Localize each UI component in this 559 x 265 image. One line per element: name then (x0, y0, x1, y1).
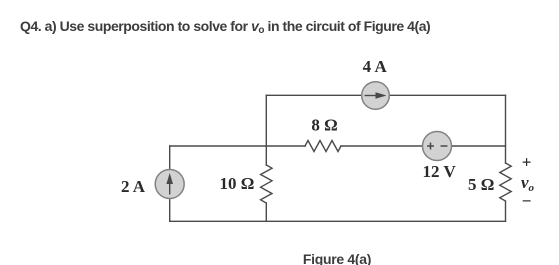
label 12 V (423, 162, 457, 181)
current source I2 2A arrow (166, 173, 173, 195)
svg-text:5 Ω: 5 Ω (468, 175, 494, 194)
voltage source V1 12V circle (423, 132, 452, 161)
current source I1 4A arrow (365, 92, 387, 99)
svg-text:8 Ω: 8 Ω (311, 116, 337, 135)
wire right rail lower (5 ohm to bottom corner) (505, 202, 507, 221)
label minus (vo polarity) (522, 192, 532, 211)
wire right rail upper (top corner to 5 ohm) (505, 95, 507, 163)
label 8 ohm (311, 116, 337, 135)
label 4 A (363, 57, 388, 76)
voltage source V1 minus sign (441, 145, 448, 147)
wire left rail upper (node to 2A source) (169, 146, 171, 170)
wire 10 ohm stub lower (265, 203, 267, 221)
resistor R 5 ohm (vertical) (500, 163, 511, 201)
wire middle-right (12V source to right rail) (452, 145, 506, 147)
svg-text:−: − (522, 192, 532, 211)
wire 10 ohm stub upper (265, 146, 267, 165)
voltage source V1 plus sign (427, 143, 434, 150)
svg-text:Q4. a) Use superposition to so: Q4. a) Use superposition to solve for vo… (20, 18, 430, 36)
svg-text:Figure 4(a): Figure 4(a) (303, 251, 371, 265)
svg-text:10 Ω: 10 Ω (220, 174, 255, 193)
wire middle-center (8 ohm to 12V source) (341, 145, 423, 147)
wire inner vertical upper (top wire down to node A) (265, 95, 267, 146)
svg-text:+: + (522, 153, 532, 172)
label 2 A (121, 177, 146, 196)
svg-text:2 A: 2 A (121, 177, 146, 196)
wire top-right segment (4A source to top-right corner) (390, 94, 506, 96)
resistor R 10 ohm (vertical) (261, 165, 272, 203)
current source I1 4A circle (362, 82, 390, 110)
label 10 ohm (220, 174, 255, 193)
resistor R 8 ohm (horizontal) (305, 141, 341, 152)
label 5 ohm (468, 175, 494, 194)
title text (20, 18, 430, 36)
wire middle-left (left branch to node A) (170, 145, 305, 147)
svg-text:12 V: 12 V (423, 162, 457, 181)
current source I2 2A circle (155, 170, 184, 199)
wire top-left segment (node B to 4A source) (266, 94, 361, 96)
caption Figure 4(a) (303, 251, 371, 265)
svg-text:4 A: 4 A (363, 57, 388, 76)
label plus (vo polarity) (522, 153, 532, 172)
label vo (521, 173, 535, 194)
wire bottom rail (170, 220, 506, 222)
wire left rail lower (2A source to bottom) (169, 199, 171, 222)
